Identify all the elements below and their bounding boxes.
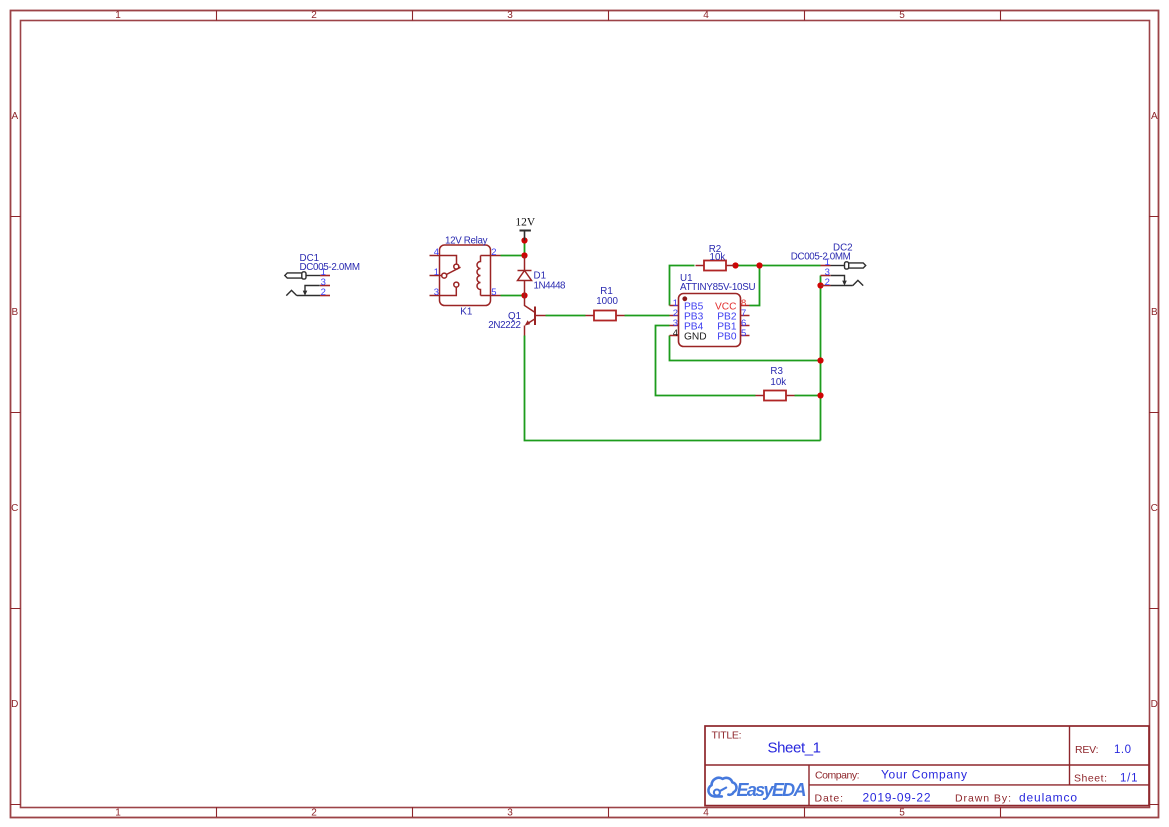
svg-text:DC005-2.0MM: DC005-2.0MM (791, 252, 851, 263)
svg-text:Company:: Company: (815, 770, 860, 782)
svg-text:2: 2 (825, 277, 830, 288)
svg-text:4: 4 (703, 10, 709, 21)
svg-text:Drawn By:: Drawn By: (955, 792, 1011, 804)
svg-text:10k: 10k (770, 377, 786, 388)
svg-text:1: 1 (115, 10, 121, 21)
svg-text:2: 2 (311, 10, 317, 21)
svg-text:10k: 10k (710, 252, 726, 263)
svg-text:D: D (11, 699, 18, 710)
svg-text:2019-09-22: 2019-09-22 (863, 790, 931, 804)
svg-text:GND: GND (684, 331, 707, 342)
svg-text:4: 4 (703, 808, 709, 819)
svg-text:1N4448: 1N4448 (534, 280, 567, 291)
svg-text:3: 3 (434, 287, 439, 298)
svg-text:EasyEDA: EasyEDA (737, 780, 807, 800)
svg-text:Sheet_1: Sheet_1 (768, 740, 822, 757)
svg-text:5: 5 (741, 328, 746, 339)
svg-text:12V Relay: 12V Relay (445, 236, 488, 247)
svg-text:Date:: Date: (815, 792, 844, 804)
svg-text:PB0: PB0 (717, 331, 737, 342)
svg-text:A: A (1151, 111, 1158, 122)
svg-text:Sheet:: Sheet: (1074, 773, 1107, 785)
svg-text:REV:: REV: (1075, 744, 1099, 756)
svg-text:TITLE:: TITLE: (712, 730, 742, 742)
svg-text:K1: K1 (460, 306, 472, 317)
svg-text:5: 5 (899, 10, 905, 21)
svg-text:2: 2 (311, 808, 317, 819)
svg-text:1.0: 1.0 (1114, 744, 1131, 756)
svg-text:A: A (11, 111, 18, 122)
svg-text:2N2222: 2N2222 (488, 320, 521, 331)
svg-text:1: 1 (434, 267, 439, 278)
svg-text:R3: R3 (770, 366, 783, 377)
svg-text:2: 2 (491, 247, 496, 258)
svg-text:C: C (11, 503, 18, 514)
svg-text:1/1: 1/1 (1120, 773, 1138, 785)
svg-text:B: B (11, 307, 18, 318)
svg-text:ATTINY85V-10SU: ATTINY85V-10SU (680, 282, 756, 293)
svg-text:3: 3 (507, 10, 513, 21)
svg-text:5: 5 (491, 287, 496, 298)
svg-text:D: D (1151, 699, 1158, 710)
svg-text:deulamco: deulamco (1019, 790, 1077, 804)
svg-text:1: 1 (115, 808, 121, 819)
svg-text:4: 4 (434, 247, 439, 258)
svg-text:1000: 1000 (596, 296, 618, 307)
svg-text:B: B (1151, 307, 1158, 318)
svg-text:5: 5 (899, 808, 905, 819)
svg-text:DC005-2.0MM: DC005-2.0MM (300, 262, 361, 273)
svg-text:12V: 12V (515, 216, 536, 228)
svg-text:C: C (1151, 503, 1158, 514)
svg-text:2: 2 (321, 287, 326, 298)
svg-text:3: 3 (507, 808, 513, 819)
svg-text:4: 4 (673, 328, 678, 339)
svg-text:Your Company: Your Company (881, 768, 967, 782)
